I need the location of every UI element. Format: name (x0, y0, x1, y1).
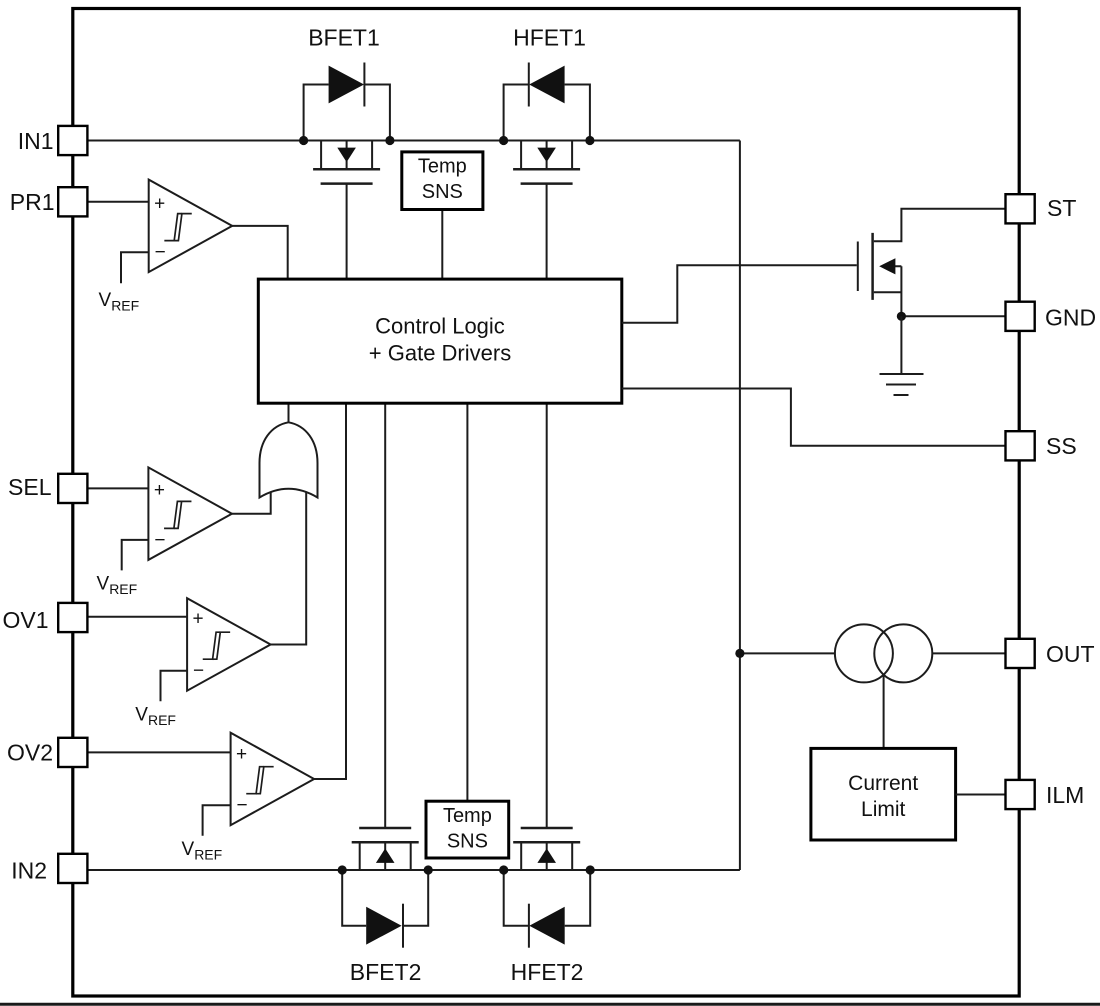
wire Temp SNS (bottom) to control logic bottom (466, 403, 468, 801)
wire Temp SNS (top) to control logic top (441, 210, 443, 280)
svg-text:+ Gate Drivers: + Gate Drivers (369, 341, 511, 366)
transistor BFET2 (back-to-back FET 2, flipped, body diode pointing right) (342, 403, 428, 948)
pin OV1 (58, 603, 87, 632)
svg-text:SNS: SNS (422, 181, 463, 203)
svg-text:−: − (237, 795, 248, 816)
svg-text:OUT: OUT (1046, 641, 1095, 667)
svg-text:SS: SS (1046, 433, 1077, 459)
svg-text:IN1: IN1 (18, 128, 54, 154)
pin OUT (1006, 639, 1035, 668)
svg-text:HFET2: HFET2 (511, 959, 584, 985)
block Current Limit (811, 748, 956, 840)
svg-text:PR1: PR1 (10, 189, 55, 215)
node: junction dot BFET2 left (338, 865, 347, 874)
svg-text:OV1: OV1 (2, 607, 48, 633)
wire PR1 comparator output to control logic top (232, 226, 288, 279)
transistor Q1 (ST discharge NFET) (858, 209, 1006, 316)
block Temp SNS (top temperature sensor) (402, 152, 483, 210)
wire GND pin connection (901, 315, 1005, 317)
comparator U2 (SEL hysteresis comparator) (87, 467, 232, 570)
svg-text:HFET1: HFET1 (513, 25, 586, 51)
svg-text:ST: ST (1047, 195, 1076, 221)
wire SEL comparator output to OR gate left input (232, 485, 271, 514)
wire control logic to ST FET gate (622, 265, 857, 323)
current source I1 (two overlapping circles) (835, 624, 932, 682)
node: junction dot HFET2 left (499, 865, 508, 874)
wire IN2 rail (IN2 pin to right, across BFET2/HFET2) (87, 869, 740, 871)
svg-text:−: − (155, 242, 166, 263)
svg-text:Temp: Temp (443, 805, 492, 827)
svg-text:ILM: ILM (1046, 782, 1084, 808)
svg-text:BFET2: BFET2 (350, 959, 422, 985)
node: junction dot HFET1 right (585, 136, 594, 145)
wire OV2 comparator output to control logic bottom (314, 403, 346, 779)
node: junction dot BFET1 right (385, 136, 394, 145)
pin ST (1006, 194, 1035, 223)
transistor HFET2 (high-side FET 2, flipped, body diode pointing left) (504, 403, 591, 948)
pin IN1 (58, 126, 87, 155)
pin SEL (58, 474, 87, 503)
node: junction dot HFET2 right (586, 865, 595, 874)
svg-text:BFET1: BFET1 (308, 25, 380, 51)
wire OV1 comparator output to OR gate right input (271, 485, 307, 645)
wire IN1 rail (IN1 pin to right, across BFET1/HFET1) (87, 140, 740, 142)
pin OV2 (58, 738, 87, 767)
block Control Logic + Gate Drivers (258, 279, 622, 403)
pin ILM (1006, 780, 1035, 809)
svg-text:Control Logic: Control Logic (375, 314, 505, 339)
wire Current Limit to ILM pin (956, 794, 1006, 796)
pin PR1 (58, 187, 87, 216)
wire current source to Current Limit block (883, 675, 885, 749)
svg-text:SNS: SNS (447, 830, 488, 852)
ground symbol (880, 316, 924, 395)
svg-text:+: + (236, 744, 247, 765)
pin SS (1006, 431, 1035, 460)
svg-text:−: − (193, 661, 204, 682)
wire OUT node to current source (740, 652, 835, 654)
page rule at bottom (0, 1003, 1100, 1006)
node: junction dot at ST FET source / GND (897, 312, 906, 321)
wire OR gate output to control logic bottom (288, 403, 290, 424)
svg-text:SEL: SEL (8, 474, 52, 500)
comparator U1 (PR1 hysteresis comparator) (87, 180, 232, 284)
svg-text:+: + (154, 480, 165, 501)
transistor HFET1 (high-side FET 1, body diode pointing left) (504, 63, 590, 280)
wire current source to OUT pin (932, 652, 1005, 654)
svg-text:−: − (154, 530, 165, 551)
transistor BFET1 (back-to-back FET 1, body diode pointing right) (304, 63, 390, 280)
svg-text:IN2: IN2 (11, 858, 47, 884)
comparator U4 (OV2 hysteresis comparator) (87, 733, 314, 836)
comparator U3 (OV1 hysteresis comparator) (87, 598, 270, 701)
svg-text:+: + (154, 193, 165, 214)
svg-text:Temp: Temp (418, 155, 467, 177)
svg-text:+: + (193, 608, 204, 629)
wire vertical IN1-to-IN2 common node at x=740 (739, 141, 741, 871)
node: junction dot BFET1 left (299, 136, 308, 145)
svg-text:Limit: Limit (861, 798, 906, 821)
pin GND (1006, 302, 1035, 331)
node: junction dot HFET1 left (499, 136, 508, 145)
node: junction dot at OUT branch (735, 649, 744, 658)
gate OR (2-input OR, rotated pointing up) (260, 422, 318, 497)
svg-text:OV2: OV2 (7, 739, 53, 765)
svg-text:GND: GND (1045, 305, 1096, 331)
wire control logic to SS pin (622, 389, 1006, 446)
svg-text:Current: Current (848, 772, 918, 795)
node: junction dot BFET2 right (424, 865, 433, 874)
pin IN2 (58, 854, 87, 883)
block Temp SNS (bottom temperature sensor) (426, 801, 509, 858)
